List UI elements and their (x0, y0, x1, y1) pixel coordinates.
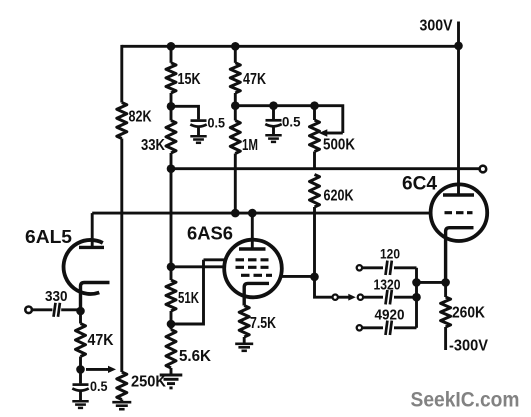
label 1M (242, 137, 258, 154)
wire 4920 row right (394, 326, 417, 329)
wire 330 cap to node (61, 308, 80, 311)
capacitor 0.5 C2 (265, 106, 281, 136)
svg-text:51K: 51K (178, 290, 199, 307)
tube 6C4 plate (443, 193, 474, 196)
capacitor 1320 (386, 290, 392, 304)
svg-text:6C4: 6C4 (402, 174, 437, 195)
node 300V supply stub (457, 22, 460, 47)
junction input node (76, 307, 85, 316)
label 6C4 (402, 174, 437, 195)
wire 51K to 5.6K (170, 311, 173, 330)
wire grid 2 to 51K node (171, 265, 226, 268)
junction grid bus / 6AS6 plate (248, 209, 257, 218)
tube 6C4 grid dashes (445, 211, 473, 214)
svg-text:82K: 82K (129, 109, 152, 126)
tube 6AS6 envelope (224, 240, 282, 298)
svg-text:0.5: 0.5 (282, 115, 301, 130)
resistor 260K (441, 297, 451, 327)
label 0.5 C2 (282, 115, 301, 130)
label 120 (380, 247, 400, 262)
svg-text:620K: 620K (324, 187, 354, 204)
label 6AL5 (25, 227, 72, 247)
wire grid 1 stub (204, 258, 228, 261)
tube 6AL5 plate (79, 246, 104, 249)
ground under 250K (112, 402, 131, 409)
resistor 47K input (76, 324, 86, 357)
wire node to C1 (171, 106, 199, 119)
wire node to 47K (79, 311, 82, 324)
wire 620K down to switch row (315, 207, 333, 297)
junction 6C4 cathode node (441, 278, 450, 287)
svg-text:5.6K: 5.6K (179, 348, 211, 365)
resistor 51K (166, 280, 176, 311)
wire 6AS6 plate lead (251, 213, 254, 249)
wire 500K top lead (313, 106, 316, 120)
junction bus / cathode wire (412, 278, 421, 287)
tube 6C4 envelope (431, 184, 488, 241)
ground under C2 (265, 135, 281, 142)
wire 120 row right (394, 266, 417, 269)
junction bus / 1320 row (412, 293, 421, 302)
svg-text:-300V: -300V (449, 338, 489, 355)
label 500K (323, 137, 355, 154)
wire 15K top lead (170, 46, 173, 63)
capacitor 120 (386, 261, 392, 275)
label 620K (324, 187, 354, 204)
wire suppressor to node (281, 275, 315, 278)
wire 1320 row right (394, 296, 417, 299)
capacitor 0.5 C1 (190, 121, 206, 137)
junction rail / C2 (269, 101, 278, 110)
svg-text:SeekIC.com: SeekIC.com (411, 388, 520, 412)
label 33K (141, 137, 165, 154)
label 4920 (375, 307, 405, 324)
resistor 82K (117, 103, 127, 139)
wire 15K bottom to 33K node (170, 93, 173, 121)
junction suppressor node (310, 273, 319, 282)
wire 1M down to grid wire (234, 154, 237, 214)
wire 500K bottom lead (313, 152, 316, 169)
wire bus to cathode node (417, 281, 446, 284)
wire 6AL5 plate lead (91, 213, 94, 247)
svg-text:33K: 33K (141, 137, 165, 154)
wire 250K to ground (120, 400, 123, 403)
svg-text:6AS6: 6AS6 (187, 224, 233, 244)
tube 6AL5 cathode (81, 283, 110, 312)
svg-text:0.5: 0.5 (90, 379, 108, 394)
wire 260K top lead (444, 282, 447, 297)
resistor 47K (230, 63, 240, 93)
junction 47K bottom node (76, 365, 85, 374)
resistor 15K (166, 63, 176, 93)
wire grid bus 6AL5 plate to 6C4 grid (92, 212, 431, 215)
label 6AS6 (187, 224, 233, 244)
tube 6AS6 plate (239, 247, 266, 250)
wire switch blade (338, 294, 356, 301)
wire 120 row (362, 266, 383, 269)
svg-text:500K: 500K (323, 137, 355, 154)
svg-text:47K: 47K (88, 332, 114, 349)
terminal 1320 position (358, 295, 363, 300)
svg-text:47K: 47K (243, 71, 266, 88)
label 0.5 C1 (208, 115, 226, 130)
resistor 250K potentiometer (117, 372, 127, 400)
ground under C3 (72, 401, 88, 408)
wire cap bus (415, 268, 418, 328)
svg-text:4920: 4920 (375, 307, 405, 324)
capacitor 4920 (386, 321, 392, 335)
resistor 500K potentiometer (310, 120, 320, 152)
svg-text:120: 120 (380, 247, 400, 262)
wire 47K bottom to 1M (234, 93, 237, 121)
terminal 4920 position (357, 325, 362, 330)
label 0.5 C3 (90, 379, 108, 394)
wire 1320 row (363, 296, 383, 299)
wire output line (171, 167, 480, 170)
tube 6AS6 grid 1 dashes (236, 258, 269, 261)
tube 6AS6 grid 3 dashes (241, 274, 272, 277)
svg-text:0.5: 0.5 (208, 115, 226, 130)
label 330 (45, 288, 68, 305)
label 300V (420, 18, 454, 35)
resistor 33K (166, 121, 176, 154)
wire 47K top lead (234, 46, 237, 63)
label 250K (131, 374, 166, 391)
resistor 5.6K (166, 330, 176, 369)
label 47K (243, 71, 266, 88)
tube 6AS6 cathode (244, 283, 269, 305)
ground under C1 (190, 136, 206, 143)
label 260K (452, 305, 485, 322)
resistor 7.5K (239, 306, 249, 338)
terminal 120 position (357, 265, 362, 270)
junction 47K/1M/105 rail (231, 101, 240, 110)
terminal input (25, 307, 32, 314)
wire input to 330 cap (32, 308, 52, 311)
terminal output (480, 166, 487, 173)
svg-text:6AL5: 6AL5 (25, 227, 72, 247)
wire 7.5K to ground (243, 337, 246, 344)
watermark SeekIC.com (411, 388, 520, 412)
capacitor 0.5 C3 (72, 369, 88, 401)
ground under 5.6K (160, 375, 183, 388)
wire 47K to bottom node (79, 357, 82, 370)
label -300V (449, 338, 489, 355)
svg-text:330: 330 (45, 288, 68, 305)
terminal switch common (333, 295, 338, 300)
label 82K (129, 109, 152, 126)
label 51K (178, 290, 199, 307)
junction top rail / 47K (231, 42, 240, 51)
wire wiper arrow to 250K (86, 366, 116, 373)
svg-text:7.5K: 7.5K (250, 315, 276, 332)
tube 6C4 cathode (446, 228, 474, 283)
junction top rail / 6C4 plate (454, 42, 463, 51)
junction 1M / grid wire (231, 209, 240, 218)
wire 500K wiper arm (319, 129, 343, 137)
resistor 620K (310, 175, 320, 208)
wire 4920 row (362, 326, 383, 329)
wire top supply rail (122, 45, 459, 48)
label 7.5K (250, 315, 276, 332)
junction 51K/5.6K node (167, 320, 176, 329)
wire 260K to -300V (444, 327, 447, 350)
tube 6AL5 envelope (64, 240, 103, 294)
svg-text:260K: 260K (452, 305, 485, 322)
junction 33K line / output line (167, 164, 176, 173)
tube 6AS6 grid 2 dashes (236, 266, 269, 269)
wire 82K to 250K (120, 139, 123, 373)
svg-text:1M: 1M (242, 137, 258, 154)
svg-text:300V: 300V (420, 18, 454, 35)
wire second rail (235, 106, 342, 133)
capacitor 330 (54, 303, 60, 317)
wire 5.6K to ground (170, 368, 173, 375)
wire 33K down to 51K (170, 153, 173, 280)
label 1320 (374, 277, 401, 294)
resistor 1M (230, 121, 240, 154)
label 5.6K (179, 348, 211, 365)
svg-text:15K: 15K (178, 71, 201, 88)
label 15K (178, 71, 201, 88)
junction rail / 500K (310, 101, 319, 110)
junction 51K top / grid wire (167, 263, 176, 272)
junction 15K/33K/0.5 cap node (167, 102, 176, 111)
wire 6C4 plate lead (457, 46, 460, 195)
wire grid1 L-link to 5.6K node (171, 260, 204, 324)
junction top rail / 15K (167, 42, 176, 51)
wire left drop to 82K (120, 45, 123, 103)
ground under 7.5K (235, 344, 253, 351)
label 47K input (88, 332, 114, 349)
